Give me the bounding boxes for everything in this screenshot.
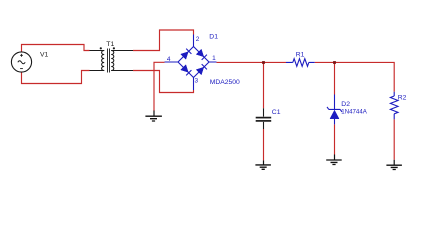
ground R2	[386, 160, 402, 170]
svg-text:4: 4	[167, 56, 171, 63]
capacitor C1	[256, 108, 272, 129]
svg-text:3: 3	[195, 78, 199, 85]
zener diode D2	[327, 95, 342, 125]
bridge rectifier D1	[165, 35, 217, 91]
diode top-right (2 to 1)	[196, 49, 207, 60]
phase dot primary	[100, 47, 102, 49]
svg-text:T1: T1	[106, 41, 114, 48]
phase dot secondary	[113, 47, 115, 49]
svg-text:R1: R1	[296, 51, 305, 58]
svg-text:1N4744A: 1N4744A	[341, 108, 367, 115]
junction at C1	[262, 61, 265, 64]
svg-text:D2: D2	[341, 101, 350, 108]
wire rail to C1 top	[263, 63, 265, 109]
svg-text:D1: D1	[209, 33, 218, 40]
svg-text:1: 1	[212, 55, 216, 62]
ground C1	[255, 160, 271, 169]
svg-text:2: 2	[196, 36, 200, 43]
diode bottom-right (3 to 1)	[196, 64, 207, 75]
wire rail to D2 top	[334, 63, 336, 95]
wire bridge pin 4 to ground	[154, 62, 165, 111]
diode top-left (4 to 2)	[181, 49, 192, 60]
diode bottom-left (4 to 3)	[181, 65, 192, 76]
wire R2 bottom to ground	[393, 119, 395, 160]
wire transformer secondary bottom to bridge pin 3	[133, 71, 194, 93]
wire V1 top to transformer primary top	[22, 45, 90, 53]
svg-text:V1: V1	[40, 51, 49, 58]
svg-text:MDA2500: MDA2500	[210, 79, 240, 86]
junction at D2	[333, 61, 336, 64]
wire C1 bottom to ground	[263, 129, 265, 160]
wire transformer secondary top to bridge pin 2	[133, 30, 194, 51]
wire bridge pin 1 to R1	[217, 61, 287, 63]
ground D2	[326, 155, 342, 165]
AC source V1	[11, 52, 31, 72]
resistor R1	[286, 59, 315, 67]
resistor R2	[390, 92, 398, 120]
svg-text:C1: C1	[272, 109, 281, 116]
transformer T1	[90, 49, 134, 73]
wire V1 bottom to transformer primary bottom	[22, 71, 90, 84]
ground T1/bridge	[145, 111, 162, 122]
wire D2 bottom to ground	[334, 124, 336, 154]
svg-text:R2: R2	[398, 94, 407, 101]
wire R1 to R2 top rail	[315, 62, 395, 91]
